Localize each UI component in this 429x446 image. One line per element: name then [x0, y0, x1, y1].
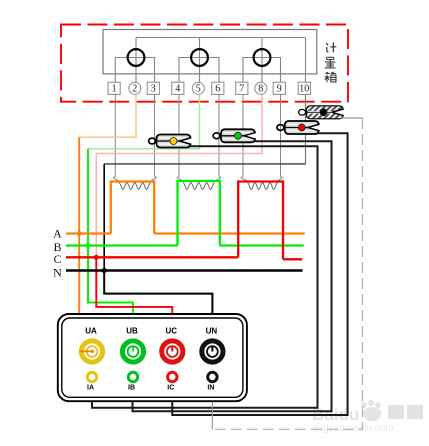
terminal 4	[172, 82, 184, 95]
svg-text:2: 2	[132, 84, 137, 95]
svg-text:10: 10	[299, 84, 309, 95]
svg-text:9: 9	[277, 84, 282, 95]
terminal 6	[212, 82, 224, 95]
svg-text:IB: IB	[128, 385, 135, 392]
wire current coil element 3	[243, 58, 281, 83]
svg-text:IC: IC	[167, 385, 174, 392]
meter element 2 (coil circle)	[191, 49, 208, 66]
svg-text:IA: IA	[87, 385, 94, 392]
terminal 10	[298, 82, 310, 95]
current jack IN	[207, 372, 217, 391]
wire voltage tap B down	[88, 149, 133, 347]
CT-A secondary winding	[114, 94, 157, 189]
terminal 9	[273, 82, 285, 95]
wire tip UC	[171, 347, 173, 352]
junction B tap	[86, 243, 91, 248]
metering box dashed border	[61, 25, 348, 102]
neutral bus N	[66, 269, 303, 271]
svg-text:6: 6	[215, 84, 220, 95]
wire voltage coil terminal 2	[135, 38, 137, 83]
node label B	[53, 240, 61, 254]
current jack IA	[87, 372, 97, 391]
wire neutral run left	[104, 163, 305, 165]
CT-C secondary winding	[241, 94, 282, 189]
junction C tap	[94, 255, 99, 260]
phase bus B (left)	[66, 244, 178, 246]
svg-text:N: N	[53, 265, 62, 279]
junction N tap	[102, 268, 107, 273]
phase bus B (right)	[220, 244, 304, 246]
voltage jack UC	[162, 327, 183, 363]
node label C	[53, 252, 61, 266]
svg-text:jingyan.baidu.com: jingyan.baidu.com	[312, 423, 394, 434]
svg-text:UB: UB	[126, 327, 138, 336]
wire voltage coil terminal 5	[199, 38, 201, 83]
svg-text:C: C	[53, 252, 61, 266]
wire voltage tap C (pale)	[96, 94, 262, 257]
svg-text:IN: IN	[207, 385, 214, 392]
wire voltage tap C down	[96, 257, 172, 347]
watermark	[312, 400, 423, 434]
tester device body	[58, 314, 247, 401]
svg-text:3: 3	[151, 84, 156, 95]
cable clamp B to IB	[133, 141, 332, 411]
wire tip UN	[211, 347, 213, 352]
terminal 2	[129, 82, 141, 94]
current jack IC	[167, 372, 177, 391]
svg-text:1: 1	[112, 84, 117, 95]
svg-text:8: 8	[258, 84, 263, 95]
terminal 3	[147, 82, 159, 95]
voltage jack UN	[202, 327, 223, 363]
wire current coil element 2	[179, 58, 219, 83]
energy meter outline	[103, 30, 317, 74]
meter element 3 (coil circle)	[254, 49, 271, 66]
terminal 8	[255, 82, 267, 94]
wire tip UB	[132, 347, 134, 352]
wire voltage tap A (pale)	[79, 94, 136, 137]
current clamp A (yellow) on terminal-3 wire	[149, 135, 192, 148]
current jack IB	[128, 372, 138, 391]
wire meter voltage common bus	[136, 37, 306, 39]
wire voltage tap A down	[78, 137, 80, 348]
CT-B secondary winding	[177, 94, 221, 189]
svg-text:A: A	[53, 226, 62, 240]
svg-text:7: 7	[239, 84, 244, 95]
cable clamp N to IN (dashed)	[212, 118, 362, 429]
node label N	[53, 265, 62, 279]
meter element 1 (coil circle)	[128, 49, 145, 66]
wire terminal 10 down (through neutral clamp)	[305, 94, 307, 163]
phase bus A (right)	[154, 232, 305, 234]
current clamp C (red) on terminal-9 wire	[277, 121, 320, 134]
CT-B primary loop	[178, 181, 220, 246]
svg-text:UC: UC	[166, 327, 178, 336]
cable clamp C to IC	[172, 133, 347, 415]
CT-C primary loop	[238, 182, 283, 260]
wire voltage tap B (pale)	[88, 94, 200, 148]
voltage jack UB	[122, 327, 143, 363]
phase bus A (left)	[66, 232, 111, 234]
terminal 7	[236, 82, 248, 95]
phase bus C (right)	[283, 258, 302, 260]
cable clamp A to IA	[92, 146, 318, 408]
wire current coil element 1	[115, 58, 154, 83]
wire neutral down to N bus	[103, 164, 105, 271]
voltage jack UA	[81, 327, 102, 363]
label metering-box (ji liang xiang)	[325, 43, 337, 83]
svg-text:UN: UN	[206, 327, 218, 336]
CT-A primary loop	[111, 182, 154, 234]
svg-text:UA: UA	[85, 327, 97, 336]
svg-text:5: 5	[196, 84, 201, 95]
current clamp N (hatched) on terminal-10 wire	[299, 106, 345, 119]
terminal 1	[108, 82, 120, 95]
junction A tap	[77, 231, 82, 236]
current clamp B (green) on terminal-6 wire	[213, 129, 256, 142]
wire neutral to UN jack	[104, 271, 212, 348]
wire voltage coil terminal 8	[261, 38, 263, 83]
wire terminal 10 from bus	[305, 38, 307, 83]
node label A	[53, 226, 62, 240]
phase bus C (left)	[66, 256, 238, 258]
terminal 5	[192, 82, 204, 94]
svg-text:4: 4	[175, 84, 180, 95]
wire tip UA	[79, 350, 94, 353]
